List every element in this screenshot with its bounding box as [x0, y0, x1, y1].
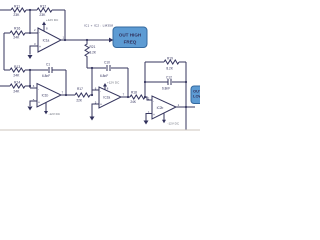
- node IC2a inverting: [91, 94, 93, 96]
- wire output IC2b: [176, 106, 195, 108]
- svg-text:3: 3: [34, 42, 36, 46]
- svg-text:LOW: LOW: [193, 94, 200, 99]
- svg-text:1: 1: [178, 103, 180, 107]
- wire R17 to inverting node: [90, 94, 92, 96]
- wire R21 bottom to C10: [87, 67, 106, 69]
- wire power pin IC2a: [104, 87, 106, 91]
- node junction top tap: [29, 9, 31, 11]
- svg-text:24K: 24K: [13, 74, 20, 78]
- power +12V arrow IC1a: [42, 22, 46, 26]
- svg-text:R12: R12: [40, 5, 46, 9]
- ground IC2a: [90, 117, 95, 121]
- svg-text:22K: 22K: [76, 98, 83, 102]
- wire input bottom: [0, 85, 10, 87]
- svg-text:7: 7: [62, 91, 64, 95]
- node R21 tap: [86, 39, 88, 41]
- wire feedback vertical IC2b: [144, 62, 146, 97]
- wire C10 corner down to IC2a output: [127, 68, 129, 97]
- wire IC2a inverting stub: [92, 89, 99, 91]
- svg-text:7: 7: [123, 93, 125, 97]
- svg-text:+12V DC: +12V DC: [107, 80, 120, 84]
- ground IC2b: [144, 121, 149, 125]
- resistor R19: [164, 60, 179, 64]
- svg-text:IC2b: IC2b: [157, 106, 164, 110]
- svg-text:C1: C1: [46, 63, 50, 67]
- svg-text:8: 8: [46, 26, 48, 30]
- resistor R11: [11, 8, 26, 12]
- svg-text:8.2K: 8.2K: [90, 50, 97, 54]
- svg-text:IC1b: IC1b: [42, 94, 49, 98]
- wire feedback cap row: [145, 81, 168, 83]
- node R14 join: [29, 85, 31, 87]
- svg-text:OUT HIGH: OUT HIGH: [119, 33, 142, 38]
- svg-text:6.8nF: 6.8nF: [42, 74, 50, 78]
- wire input top: [0, 9, 11, 11]
- resistor R14: [10, 84, 25, 88]
- node IC2a output junction: [127, 96, 129, 98]
- wire feedback resistor row: [145, 61, 186, 63]
- node C1 feedback join: [65, 94, 67, 96]
- svg-text:24K: 24K: [130, 100, 137, 104]
- resistor R16: [10, 31, 25, 35]
- svg-text:-: -: [100, 89, 101, 93]
- node R18 feedback tap: [144, 96, 146, 98]
- node right rail top: [185, 81, 187, 83]
- wire R13 to node: [25, 69, 48, 71]
- arrowhead to OUT HIGH box: [109, 38, 114, 43]
- op-amp U1 IC1b: [37, 84, 61, 108]
- svg-text:IC1 + IC2 : LM358: IC1 + IC2 : LM358: [84, 24, 113, 28]
- wire R14 to inverting IC1b: [25, 85, 30, 87]
- node inverting input IC1a: [29, 32, 31, 34]
- svg-text:8: 8: [107, 87, 109, 91]
- wire noninverting IC2b: [146, 114, 152, 121]
- svg-text:1: 1: [63, 35, 65, 39]
- wire noninverting IC1b: [30, 101, 37, 106]
- wire node A down: [30, 70, 37, 88]
- node lowpass A: [29, 69, 31, 71]
- node output low join: [185, 106, 187, 108]
- wire output IC1b: [61, 94, 75, 96]
- power -12V arrow IC2b: [162, 120, 166, 123]
- resistor R18: [130, 95, 145, 99]
- wire IC2a inverting vertical: [91, 68, 93, 95]
- wire between R11 and R12: [26, 9, 37, 11]
- svg-text:-12V DC: -12V DC: [168, 122, 180, 126]
- svg-text:R18: R18: [131, 90, 137, 94]
- svg-text:C10: C10: [104, 61, 110, 65]
- wire power pin IC2b: [163, 114, 165, 120]
- svg-text:R14: R14: [14, 81, 20, 85]
- svg-text:+: +: [39, 45, 41, 49]
- wire R18 to IC2b: [145, 97, 152, 100]
- op-amp U1 IC1a: [38, 28, 61, 52]
- node C10 tap: [91, 67, 93, 69]
- wire C1 feedback vertical: [65, 70, 67, 95]
- ground IC1a: [28, 55, 33, 59]
- wire power pin IC1a: [43, 25, 45, 31]
- wire left rail down: [3, 33, 5, 70]
- wire power pin IC1b: [45, 103, 47, 112]
- svg-text:FREQ: FREQ: [124, 39, 137, 44]
- svg-text:-: -: [39, 31, 40, 35]
- wire output IC1a: [61, 39, 109, 41]
- svg-text:+: +: [153, 113, 155, 117]
- capacitor C12: [168, 79, 171, 85]
- wire inverting input row: [4, 32, 38, 34]
- svg-text:R19: R19: [167, 56, 173, 60]
- svg-text:+12V DC: +12V DC: [46, 18, 59, 22]
- capacitor C10: [107, 65, 110, 71]
- wire C12 to right rail: [172, 81, 186, 83]
- resistor R17: [75, 93, 90, 97]
- svg-text:2: 2: [34, 28, 36, 32]
- svg-text:+: +: [100, 102, 102, 106]
- wire feedback vertical: [64, 10, 66, 40]
- svg-text:23K: 23K: [13, 13, 20, 17]
- resistor R21 vertical: [85, 40, 89, 68]
- svg-text:6: 6: [33, 84, 35, 88]
- wire C1 to corner: [52, 69, 66, 71]
- op-amp U2 IC2b: [152, 96, 176, 119]
- svg-text:R13: R13: [14, 65, 20, 69]
- wire right rail: [185, 62, 187, 130]
- resistor R13: [10, 68, 25, 72]
- wire C10 to corner: [111, 67, 128, 69]
- wire noninverting input IC1a: [30, 46, 38, 55]
- svg-text:6.8nF: 6.8nF: [162, 86, 170, 90]
- svg-text:R17: R17: [77, 87, 83, 91]
- wire noninverting IC2a: [92, 104, 99, 117]
- svg-text:24K: 24K: [13, 90, 20, 94]
- svg-text:IC1a: IC1a: [43, 39, 50, 43]
- node cap row tap: [144, 81, 146, 83]
- box OUT HIGH FREQ: [113, 27, 147, 48]
- box OUT LOW FREQ: [191, 86, 211, 104]
- svg-text:R16: R16: [14, 27, 20, 31]
- node feedback join: [64, 39, 66, 41]
- svg-text:23K: 23K: [39, 13, 46, 17]
- svg-text:-12V DC: -12V DC: [49, 112, 61, 116]
- svg-text:R11: R11: [14, 5, 20, 9]
- svg-text:IC2a: IC2a: [103, 96, 110, 100]
- resistor R12: [37, 8, 52, 12]
- ground IC1b: [28, 107, 33, 111]
- svg-text:6.8nF: 6.8nF: [100, 74, 108, 78]
- op-amp U2 IC2a: [99, 87, 121, 108]
- svg-text:+: +: [38, 100, 40, 104]
- power +12V arrow IC2a: [103, 83, 107, 87]
- wire tap down to inverting input: [29, 10, 31, 33]
- svg-text:-: -: [38, 87, 39, 91]
- svg-text:8.2K: 8.2K: [166, 66, 173, 70]
- svg-text:R21: R21: [90, 45, 96, 49]
- wire rail to lowpass row1: [4, 69, 10, 71]
- svg-text:C12: C12: [166, 75, 172, 79]
- power -12V arrow IC1b: [44, 111, 48, 114]
- wire bottom border line: [0, 129, 200, 131]
- svg-text:24K: 24K: [13, 35, 20, 39]
- wire IC2a output: [121, 96, 130, 98]
- capacitor C1: [49, 67, 52, 73]
- wire R12 to feedback corner: [52, 9, 65, 11]
- svg-text:-: -: [153, 99, 154, 103]
